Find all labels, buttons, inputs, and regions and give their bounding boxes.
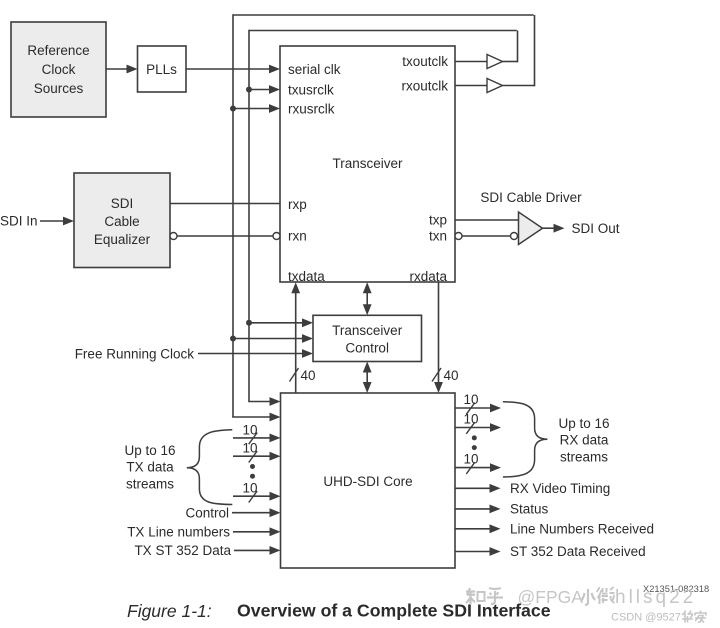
bubble: rxn equalizer output [170, 233, 177, 240]
svg-text:hllsq22: hllsq22 [615, 587, 696, 608]
svg-text:txoutclk: txoutclk [402, 54, 448, 69]
brace: TX data streams group [187, 430, 233, 505]
bus width label: 40 (txdata) [301, 368, 316, 383]
pin label: txn [429, 229, 447, 244]
block: SDI Cable Equalizer [74, 173, 170, 268]
svg-text:txn: txn [429, 229, 447, 244]
svg-text:Equalizer: Equalizer [94, 232, 151, 247]
caption: Overview of a Complete SDI Interface [237, 601, 551, 621]
pin label: rxn [288, 228, 307, 243]
svg-text:TX data: TX data [126, 460, 174, 475]
wire: Reference Clock Sources to PLLs [106, 65, 138, 74]
wire: RX data stream bus N [455, 451, 501, 474]
svg-text:CSDN @9527: CSDN @9527 [611, 612, 681, 624]
bus width label: 40 (rxdata) [444, 368, 459, 383]
wire: RX data stream bus 2 [455, 411, 501, 434]
ellipsis: TX data streams dots [250, 464, 255, 479]
wire: txoutclk to buffer [455, 61, 487, 63]
pin label: rxp [288, 197, 307, 212]
label: SDI In [0, 213, 38, 228]
svg-text:SDI: SDI [111, 196, 134, 211]
label: ST 352 Data Received [510, 544, 646, 559]
svg-text:10: 10 [243, 481, 258, 496]
wire: TX ST 352 Data [234, 546, 281, 555]
pin label: txoutclk [402, 54, 448, 69]
label: TX ST 352 Data [134, 543, 231, 558]
wire: transceiver control input 2 [233, 334, 313, 343]
svg-text:Line Numbers Received: Line Numbers Received [510, 522, 654, 537]
pin label: txdata [288, 269, 325, 284]
svg-text:RX data: RX data [560, 433, 609, 448]
wire: PLLs to serial clk [186, 65, 280, 74]
wire: transceiver-control upper bidirectional [363, 282, 372, 315]
svg-text:10: 10 [464, 451, 479, 466]
caption: Figure 1-1 [127, 601, 212, 621]
label: Status [510, 502, 549, 517]
svg-text:rxusrclk: rxusrclk [288, 101, 335, 116]
label: TX Line numbers [127, 525, 230, 540]
svg-text:txp: txp [429, 213, 447, 228]
buffer: rxoutclk clock buffer [487, 79, 503, 93]
svg-text:txusrclk: txusrclk [288, 82, 334, 97]
block: Transceiver [280, 46, 455, 282]
svg-text:serial clk: serial clk [288, 62, 341, 77]
svg-text:Control: Control [185, 505, 229, 520]
label: SDI Out [572, 221, 620, 236]
label: Line Numbers Received [510, 522, 654, 537]
svg-text:Transceiver: Transceiver [332, 323, 403, 338]
wire: rxdata bus [434, 282, 443, 393]
pin label: txusrclk [288, 82, 334, 97]
svg-text:SDI Out: SDI Out [572, 221, 620, 236]
svg-text:10: 10 [464, 392, 479, 407]
wire: rxoutclk feedback loop [233, 14, 535, 417]
wire: txusrclk [249, 85, 280, 94]
pin label: txp [429, 213, 447, 228]
svg-text:10: 10 [243, 422, 258, 437]
svg-text:SDI Cable Driver: SDI Cable Driver [480, 190, 582, 205]
block: PLLs [138, 46, 187, 92]
label: SDI Cable Driver [480, 190, 582, 205]
wire: SDI In to equalizer [40, 217, 74, 226]
svg-text:Up to 16: Up to 16 [124, 443, 175, 458]
svg-text:Reference: Reference [27, 43, 89, 58]
svg-text:rxoutclk: rxoutclk [401, 78, 448, 93]
bus slash: txdata 40 [290, 368, 299, 382]
wire: txn [462, 235, 511, 237]
svg-text:Clock: Clock [42, 62, 76, 77]
wire: Line Numbers Received [455, 524, 501, 533]
svg-text:txdata: txdata [288, 269, 325, 284]
watermark: zhihu @FPGA... [466, 587, 696, 608]
figure id: X21351-082318 [643, 584, 709, 594]
wire: Status [455, 505, 501, 514]
junction: transceiver control input 1 tap [246, 320, 252, 326]
wire: rxp [170, 203, 280, 205]
svg-text:Figure 1-1:: Figure 1-1: [127, 601, 212, 621]
wire: TX data stream bus 1 [233, 422, 281, 444]
svg-text:40: 40 [444, 368, 459, 383]
wire: RX data stream bus 1 [455, 392, 501, 415]
wire: RX Video Timing [455, 484, 501, 493]
svg-text:streams: streams [560, 449, 608, 464]
bus slash: rxdata 40 [432, 368, 441, 382]
pin label: serial clk [288, 62, 341, 77]
wire: rxusrclk [233, 104, 280, 113]
junction: rxusrclk tap [230, 106, 236, 112]
buffer: SDI cable driver amplifier [519, 212, 543, 245]
wire: control-core bidirectional [363, 362, 372, 394]
brace: RX data streams group [503, 402, 548, 477]
label: Control [185, 505, 229, 520]
block: Transceiver Control [313, 315, 422, 361]
wire: rxoutclk feedback into UHD-SDI Core [232, 413, 280, 422]
bubble: txn transceiver output [455, 233, 462, 240]
pin label: rxusrclk [288, 101, 335, 116]
wire: TX data stream bus N [233, 481, 281, 503]
wire: rxoutclk to buffer [455, 85, 487, 87]
bubble: rxn transceiver input [273, 233, 280, 240]
svg-text:10: 10 [464, 411, 479, 426]
wire: txp [455, 219, 519, 221]
wire: ST 352 Data Received [455, 547, 501, 556]
svg-text:rxp: rxp [288, 197, 307, 212]
svg-text:40: 40 [301, 368, 316, 383]
svg-text:Sources: Sources [34, 81, 84, 96]
buffer: txoutclk clock buffer [487, 55, 503, 69]
svg-text:UHD-SDI Core: UHD-SDI Core [323, 474, 412, 489]
wire: txoutclk feedback loop [249, 30, 518, 402]
svg-text:TX Line numbers: TX Line numbers [127, 525, 230, 540]
wire: rxn [177, 235, 273, 237]
svg-text:Status: Status [510, 502, 549, 517]
bubble: txn driver input [511, 233, 518, 240]
junction: txusrclk tap [246, 87, 252, 93]
svg-text:Cable: Cable [104, 214, 139, 229]
wire: txdata bus [291, 282, 300, 393]
svg-text:TX ST 352 Data: TX ST 352 Data [134, 543, 231, 558]
label: Up to 16 RX data streams [558, 416, 609, 465]
svg-text:streams: streams [126, 476, 174, 491]
svg-text:SDI In: SDI In [0, 213, 38, 228]
svg-text:ST 352 Data Received: ST 352 Data Received [510, 544, 646, 559]
svg-text:Up to 16: Up to 16 [558, 416, 609, 431]
svg-text:10: 10 [243, 441, 258, 456]
ellipsis: RX data streams dots [472, 435, 477, 450]
pin label: rxdata [409, 269, 447, 284]
wire: Free Running Clock [198, 349, 313, 358]
pin label: rxoutclk [401, 78, 448, 93]
wire: transceiver control input 1 [249, 318, 313, 327]
svg-text:Control: Control [345, 340, 389, 355]
svg-text:PLLs: PLLs [146, 62, 177, 77]
wire: txoutclk feedback into UHD-SDI Core [248, 397, 280, 406]
block: Reference Clock Sources [11, 22, 106, 117]
wire: SDI Out [543, 224, 565, 233]
svg-text:Free Running Clock: Free Running Clock [75, 346, 195, 361]
wire: Control [232, 508, 281, 517]
svg-text:rxn: rxn [288, 228, 307, 243]
wire: TX Line numbers [233, 527, 281, 536]
watermark: CSDN @9527... [611, 611, 706, 624]
label: RX Video Timing [510, 481, 610, 496]
svg-text:rxdata: rxdata [409, 269, 447, 284]
svg-text:Transceiver: Transceiver [332, 156, 403, 171]
svg-text:Overview of a Complete SDI Int: Overview of a Complete SDI Interface [237, 601, 551, 621]
block: UHD-SDI Core [281, 393, 456, 568]
label: Free Running Clock [75, 346, 195, 361]
label: Up to 16 TX data streams [124, 443, 175, 492]
wire: TX data stream bus 2 [233, 441, 281, 463]
junction: transceiver control input 2 tap [230, 336, 236, 342]
svg-text:RX Video Timing: RX Video Timing [510, 481, 610, 496]
